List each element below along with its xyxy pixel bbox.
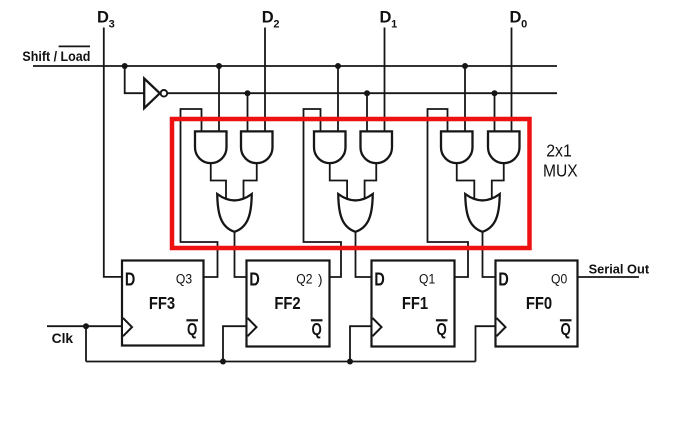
svg-text:D: D (510, 9, 522, 27)
svg-text:Q: Q (561, 319, 571, 339)
wire and1b output to or1 (244, 163, 257, 200)
junction dot load mux3 (492, 90, 498, 96)
svg-text:Q: Q (187, 319, 197, 339)
flip-flop FF2 box (247, 261, 330, 347)
wire D3 input to FF3 D (104, 28, 121, 277)
OR gate mux1 (217, 194, 252, 232)
wire clock drop (85, 326, 87, 361)
AND gate mux2 load (361, 131, 393, 163)
wire select tap mux2 (337, 66, 339, 132)
wire or3 output to FF0 D (483, 233, 495, 278)
wire select tap mux1 (218, 66, 220, 132)
junction dot rail FF1 (347, 359, 353, 365)
wire clock riser FF0 (476, 326, 495, 361)
wire D0 input (511, 28, 513, 133)
svg-text:0: 0 (521, 18, 527, 30)
svg-text:D: D (380, 9, 392, 27)
svg-text:Q: Q (312, 319, 322, 339)
svg-text:Q2: Q2 (296, 271, 312, 287)
inverter U1 bubble (161, 90, 168, 97)
junction dot load mux2 (364, 90, 370, 96)
svg-text:FF1: FF1 (402, 293, 429, 313)
svg-text:3: 3 (109, 18, 115, 30)
svg-text:2: 2 (273, 18, 279, 30)
wire and3b output to or3 (492, 163, 504, 200)
wire clock riser FF1 (350, 326, 371, 361)
wire and3a output to or3 (457, 163, 475, 200)
svg-text:FF0: FF0 (526, 293, 552, 313)
svg-text:D: D (374, 268, 384, 289)
OR gate mux3 (465, 194, 500, 232)
wire clock riser FF2 (223, 326, 246, 361)
svg-text:): ) (318, 272, 323, 287)
wire Q2 feedback to mux2 (304, 109, 342, 277)
FF0 Qbar overline (560, 319, 572, 321)
FF0 clock edge triangle (497, 318, 506, 336)
junction dot select mux2 (335, 63, 341, 69)
FF1 clock edge triangle (373, 318, 382, 336)
svg-text:Q: Q (437, 319, 447, 339)
wire load tap mux3 (494, 93, 496, 132)
FF1 Qbar overline (436, 319, 448, 321)
wire load tap mux2 (366, 93, 368, 132)
wire Q1 feedback to mux3 (428, 109, 469, 277)
OR gate mux2 (338, 194, 373, 232)
svg-text:D: D (125, 268, 135, 289)
svg-text:Clk: Clk (52, 331, 74, 346)
junction dot clk (83, 323, 89, 329)
AND gate mux1 load (241, 131, 273, 163)
wire D2 input (264, 28, 266, 133)
wire or2 output to FF1 D (356, 233, 371, 278)
junction dot select mux1 (216, 63, 222, 69)
FF3 clock edge triangle (123, 318, 132, 336)
svg-text:D: D (249, 268, 259, 289)
FF3 Qbar overline (186, 319, 198, 321)
junction dot inverter tap (122, 63, 128, 69)
svg-text:D: D (262, 9, 274, 27)
wire or1 output to FF2 D (235, 231, 246, 277)
junction dot select mux3 (462, 63, 468, 69)
svg-text:Q1: Q1 (419, 271, 435, 287)
svg-text:Serial Out: Serial Out (589, 262, 650, 277)
svg-text:D: D (498, 268, 508, 289)
svg-text:Shift / Load: Shift / Load (22, 49, 90, 64)
svg-text:D: D (97, 9, 109, 27)
wire and2a output to or2 (330, 163, 347, 200)
wire clock bottom rail (86, 361, 476, 363)
FF2 clock edge triangle (248, 318, 257, 336)
FF2 Qbar overline (311, 319, 323, 321)
svg-text:Q0: Q0 (551, 271, 567, 287)
flip-flop FF3 box (122, 261, 204, 346)
wire load tap mux1 (247, 93, 249, 132)
wire inverted load bus (167, 92, 557, 94)
wire inverter input (125, 66, 144, 93)
junction dot load mux1 (245, 90, 251, 96)
wire Clk input (47, 325, 121, 327)
inverter U1 triangle (144, 79, 160, 109)
red 2x1 MUX highlight box (172, 119, 530, 248)
AND gate mux1 shift (195, 131, 227, 163)
AND gate mux2 shift (314, 131, 346, 163)
wire and2b output to or2 (365, 163, 377, 200)
flip-flop FF1 box (372, 261, 455, 347)
svg-text:1: 1 (391, 18, 397, 30)
svg-text:MUX: MUX (543, 160, 578, 180)
svg-text:FF2: FF2 (274, 293, 300, 313)
wire D1 input (384, 28, 386, 133)
AND gate mux3 load (488, 131, 520, 163)
svg-text:Q3: Q3 (176, 271, 192, 287)
flip-flop FF0 box (496, 261, 578, 347)
wire and1a output to or1 (211, 163, 226, 200)
overline over Load (59, 45, 90, 47)
junction dot rail FF2 (220, 359, 226, 365)
wire shift/load bus (33, 65, 557, 67)
AND gate mux3 shift (441, 131, 473, 163)
wire Q3 feedback to mux1 (181, 109, 218, 277)
svg-text:2x1: 2x1 (546, 141, 572, 161)
wire serial out (579, 276, 640, 278)
svg-text:FF3: FF3 (149, 293, 175, 313)
wire select tap mux3 (464, 66, 466, 132)
